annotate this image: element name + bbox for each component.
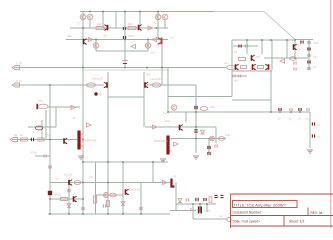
wire tr low y76 (232, 75, 247, 77)
transistor Q25 (68, 180, 72, 186)
inductor L1 (172, 179, 175, 187)
capacitor C7b (215, 144, 217, 147)
svg-text:n5: n5 (72, 116, 76, 120)
junction J6 (82, 27, 84, 29)
vertical x42 (41, 120, 43, 140)
junction J48 (195, 111, 197, 113)
junction J11 (124, 67, 126, 69)
svg-text:L3: L3 (313, 55, 317, 59)
transistor Q22 (63, 138, 67, 144)
capacitor C30 (308, 54, 310, 57)
junction J14 (49, 84, 51, 86)
transistor Q11 (145, 43, 151, 49)
vertical x144 (143, 72, 145, 127)
svg-text:1n: 1n (313, 65, 317, 69)
transistor Q28 (104, 193, 109, 198)
vertical x209 (208, 139, 210, 154)
svg-text:4k7: 4k7 (234, 79, 239, 83)
svg-text:Date: <not saved>: Date: <not saved> (233, 220, 261, 224)
junction J22 (270, 39, 272, 41)
svg-text:n_in: n_in (16, 79, 22, 83)
net arrow A4 (280, 59, 285, 63)
junction J21 (261, 39, 263, 41)
wire tr second y46 (233, 45, 258, 47)
svg-text:1k0: 1k0 (97, 22, 102, 26)
diode D9 (178, 199, 182, 203)
ground G4 (307, 150, 313, 153)
resistor R15 (21, 138, 28, 141)
svg-text:22k: 22k (45, 134, 50, 138)
svg-text:10R: 10R (225, 133, 231, 137)
junction J13 (161, 67, 163, 69)
vertical x103 stub (102, 12, 104, 29)
wire mid row y162 (83, 161, 168, 163)
net arrow D2 (152, 37, 157, 41)
resistor R16 (38, 138, 44, 141)
junction J4 (139, 11, 141, 13)
junction J12 (146, 67, 148, 69)
wire V+ rail left (80, 11, 148, 13)
junction J_a7 (156, 27, 158, 29)
capacitor C11 (49, 165, 51, 168)
svg-text:2sc5200: 2sc5200 (130, 188, 142, 192)
svg-text:fnn: fnn (163, 111, 168, 115)
wire input line (14, 84, 104, 86)
wire bias row y28 (70, 27, 168, 29)
svg-text:T9: T9 (256, 55, 260, 59)
resistor R20 (94, 196, 97, 203)
resistor R24 (239, 58, 246, 61)
junction J43 (206, 203, 208, 205)
vertical x96 upper (95, 40, 97, 52)
capacitor C17 (215, 195, 218, 197)
wire V+ rail right (214, 11, 264, 13)
wire feedback side (146, 84, 196, 86)
resistor R26 (258, 66, 264, 69)
junction J15 (49, 139, 51, 141)
junction J34 (107, 213, 109, 215)
junction J8 (124, 39, 126, 41)
transistor Q34 (293, 44, 297, 50)
vertical x125 upper (124, 12, 126, 63)
via dot (94, 92, 97, 95)
transistor Q9 glyph (158, 38, 163, 45)
svg-text:2R2: 2R2 (313, 41, 319, 45)
vertical x69 (68, 186, 70, 214)
resistor R9 (152, 83, 161, 87)
junction J24 (294, 39, 296, 41)
vertical x108 long (107, 72, 109, 214)
vertical x176 (175, 183, 177, 211)
resistor R27 (289, 57, 296, 61)
resistor R10 rail end (227, 65, 236, 69)
capacitor C34 (307, 108, 309, 111)
capacitor C29 (308, 48, 310, 51)
vertical x46 (45, 110, 47, 140)
capacitor C16 (204, 198, 206, 201)
wire zobel y58 (264, 57, 308, 59)
vertical tr x272 (271, 40, 273, 70)
wire cap feed y107 (48, 106, 80, 108)
vertical x295 (294, 40, 296, 58)
vertical x83 main bus (82, 12, 84, 215)
net arrow A5 (153, 125, 158, 129)
capacitor C14 (186, 198, 188, 201)
capacitor C31 (279, 108, 281, 111)
wire rc link y127 (28, 126, 56, 128)
capacitor C35 (312, 122, 314, 125)
capacitor C3 (195, 106, 197, 109)
resistor R13 (35, 126, 43, 130)
connector X1 (227, 217, 231, 221)
wire bottom rail left (48, 213, 170, 215)
resistor R8 (87, 83, 96, 87)
svg-text:470p: 470p (30, 151, 37, 155)
svg-text:o1: o1 (224, 61, 228, 65)
diode D7 (67, 204, 71, 208)
vertical x232 (231, 40, 233, 97)
svg-text:0R22: 0R22 (54, 193, 62, 197)
transistor Q9 wrap (158, 38, 163, 45)
capacitor C30b (308, 61, 310, 64)
junction J10 (82, 67, 84, 69)
port P3 (10, 134, 18, 142)
transistor Q5 (104, 25, 108, 31)
junction J27 (82, 182, 84, 184)
svg-text:n_fb: n_fb (16, 62, 22, 66)
vertical tr x262 (261, 40, 263, 54)
junction J20 (246, 39, 248, 41)
svg-text:10u: 10u (38, 99, 43, 103)
junction J28 (107, 182, 109, 184)
wire vas link2 (232, 99, 271, 101)
capacitor C24 (238, 75, 240, 78)
net arrow A2 (87, 123, 92, 127)
wire cascode row y39 (66, 39, 168, 41)
capacitor C38 (140, 207, 142, 210)
vertical x196 mid (195, 85, 197, 153)
svg-text:2k2: 2k2 (67, 34, 72, 38)
wire mid bottom row y195 (96, 194, 123, 196)
junction J18 (270, 111, 272, 113)
net arrow A6 (131, 44, 136, 48)
wire tr top y40 (232, 39, 295, 41)
svg-text:REV: 3a: REV: 3a (311, 211, 323, 215)
capacitor C1 (123, 36, 125, 39)
junction J23 (286, 39, 288, 41)
capacitor C6 (208, 152, 210, 155)
vertical x165 stub (164, 20, 166, 28)
svg-text:L1: L1 (173, 174, 177, 178)
vertical x186 stub (185, 112, 187, 122)
junction J37 (82, 161, 84, 163)
vertical x310 low (309, 112, 311, 148)
net arrow A7 (148, 26, 153, 30)
wire long mid rail (14, 67, 226, 69)
ground G1 (193, 156, 199, 159)
wire circle bottoms y51 (96, 50, 148, 52)
vertical x162 mid (161, 40, 163, 86)
resistor R18 dark square (48, 191, 52, 195)
junction J5 (157, 11, 159, 13)
capacitor C36 (312, 134, 314, 137)
junction J44 (195, 126, 197, 128)
junction J32 (68, 213, 70, 215)
svg-text:1u: 1u (317, 123, 321, 127)
junction J41 (192, 203, 194, 205)
svg-text:T8: T8 (89, 175, 93, 179)
capacitor C1b (123, 27, 125, 30)
wire out right y39 (295, 39, 313, 41)
vertical tr x247 (246, 40, 248, 54)
tee symbol T1 (122, 61, 128, 68)
wire input RC row (12, 139, 77, 141)
junction J2 (102, 11, 104, 13)
vertical x216 (215, 127, 217, 143)
capacitor C15 (196, 198, 198, 201)
svg-text:b1: b1 (104, 34, 108, 38)
transistor Q20 (179, 125, 183, 131)
vertical x168 (167, 68, 169, 113)
vertical x158 (157, 12, 159, 40)
wire small stub y156 (35, 155, 50, 157)
wire bottom rail right (170, 210, 196, 212)
transistor Q15 (144, 82, 148, 88)
wire spreader row y127 (145, 126, 216, 128)
svg-text:T3: T3 (77, 22, 81, 26)
svg-text:1n: 1n (289, 117, 293, 121)
svg-text:47p: 47p (210, 105, 215, 109)
capacitor C9 (31, 138, 33, 141)
svg-text:IRFP240: IRFP240 (85, 139, 97, 143)
svg-text:mpsa18: mpsa18 (92, 77, 103, 81)
net arrow A1 (71, 105, 76, 109)
capacitor C26 (294, 67, 296, 70)
wire out cluster row y204 (176, 203, 216, 205)
vertical x141 low (140, 183, 142, 215)
junction J45 (279, 111, 281, 113)
power transistor M2 (166, 136, 171, 155)
junction J47 (299, 111, 301, 113)
capacitor C37 (82, 207, 84, 210)
svg-text:100n: 100n (128, 34, 135, 38)
resistor R12b (218, 137, 224, 141)
wire tr bottom y71 (232, 70, 272, 72)
capacitor C30c (308, 67, 310, 70)
vertical x116 stub (115, 12, 117, 29)
wire emitter join (108, 96, 144, 98)
junction J26 (68, 182, 70, 184)
junction J36 (140, 213, 142, 215)
transistor Q32 (252, 64, 256, 70)
vertical x95 low (95, 162, 97, 214)
svg-text:1n: 1n (278, 117, 282, 121)
capacitor C25 (294, 61, 296, 64)
diode D8 (121, 202, 125, 206)
resistor R22 (107, 201, 110, 207)
vertical x271 (270, 70, 272, 112)
transistor Q33 (265, 64, 269, 70)
capacitor C8 (36, 104, 48, 110)
transistor Q10 (93, 43, 99, 49)
transistor Q21 (210, 136, 215, 141)
junction J3 (124, 11, 126, 13)
resistor R19 (61, 198, 68, 201)
wire driver row y182 (50, 182, 171, 184)
junction J39 (152, 161, 154, 163)
junction J42 (199, 203, 201, 205)
junction J7 (95, 39, 97, 41)
ground G3 (160, 159, 166, 162)
transistor Q31 (251, 55, 255, 61)
vertical x148 upper (147, 40, 149, 52)
transistor Q19 (171, 105, 177, 111)
resistor R5 (96, 27, 104, 30)
junction J9 (147, 39, 149, 41)
svg-text:fb: fb (99, 92, 102, 96)
title block frame (231, 194, 333, 228)
svg-text:bias: bias (165, 119, 171, 123)
resistor R17 (74, 181, 81, 185)
vertical x140 stub (139, 12, 141, 29)
vertical tr x287 (286, 40, 288, 58)
junction J16 (82, 139, 84, 141)
junction J35 (122, 213, 124, 215)
svg-text:1n: 1n (298, 117, 302, 121)
svg-text:o2: o2 (151, 51, 155, 55)
vertical x200 low (199, 204, 201, 212)
svg-text:1k0: 1k0 (128, 22, 133, 26)
resistor R25 (241, 66, 247, 69)
wire bottom out y219 (193, 218, 227, 220)
vertical x193 low (192, 204, 194, 219)
wire diagonal drop (264, 12, 295, 40)
net arrow D6 (174, 142, 179, 146)
junction J31 (49, 213, 51, 215)
svg-text:fb2: fb2 (146, 73, 151, 77)
wire vas link (168, 96, 232, 98)
capacitor C33 (299, 108, 301, 111)
wire row y199 (50, 198, 83, 200)
transistor Q1 (80, 14, 86, 20)
svg-text:1n: 1n (306, 117, 310, 121)
capacitor C27 (301, 41, 303, 44)
vertical x56 (55, 107, 57, 127)
svg-text:Document Number:: Document Number: (233, 211, 262, 215)
net arrow A3 (163, 180, 168, 184)
svg-text:TITLE: ICE Amplifier 200W?: TITLE: ICE Amplifier 200W? (234, 202, 287, 207)
capacitor C32 (290, 108, 292, 111)
svg-text:IRFP9240: IRFP9240 (154, 139, 168, 143)
junction J33 (82, 213, 84, 215)
capacitor C23 (233, 75, 235, 78)
svg-text:o2: o2 (170, 36, 174, 40)
junction J19 (195, 138, 197, 140)
capacitor C22 (245, 45, 247, 48)
transistor Q2 (87, 14, 93, 20)
resistor R21 (110, 193, 116, 197)
frame right border (330, 0, 332, 228)
svg-text:bd139: bd139 (64, 173, 73, 177)
junction J38 (122, 161, 124, 163)
transistor Q6 (138, 25, 142, 31)
net arrow D1 (89, 37, 94, 41)
junction J46 (290, 111, 292, 113)
wire V+ rail green segment (148, 11, 214, 13)
port P2 (12, 79, 22, 87)
capacitor C12 (68, 189, 70, 192)
transistor Q29 (125, 189, 129, 195)
wire lower long rail y112 (168, 111, 310, 113)
capacitor C20 electrolytic (198, 207, 202, 214)
transistor Q8 (83, 39, 87, 45)
diode D4 (201, 130, 205, 134)
transistor Q3 (155, 14, 161, 20)
capacitor C5 (208, 146, 210, 149)
junction J29 (82, 198, 84, 200)
vertical x50 long (49, 85, 51, 214)
capacitor C10 (44, 154, 46, 157)
capacitor C21 (239, 45, 241, 48)
vertical x309 chain (308, 40, 310, 70)
vertical x123 low (122, 162, 124, 214)
resistor R11 (200, 107, 208, 111)
junction J30 (49, 198, 51, 200)
transistor Q30 (235, 64, 239, 70)
svg-text:100u: 100u (204, 209, 211, 213)
capacitor C28 (308, 41, 310, 44)
svg-text:1u: 1u (317, 135, 321, 139)
vertical x90 stub (89, 20, 91, 28)
svg-text:1k: 1k (20, 133, 24, 137)
junction J25 (294, 57, 296, 59)
resistor R6 (128, 27, 136, 30)
svg-text:T7: T7 (56, 177, 60, 181)
power transistor M1 (77, 131, 82, 150)
capacitor C18 (221, 195, 224, 197)
junction J1 (89, 11, 91, 13)
svg-text:b2: b2 (234, 50, 238, 54)
wire faint second rail (84, 69, 168, 71)
capacitor C13 (103, 204, 105, 207)
resistor R23 (209, 197, 212, 203)
capacitor C19 (191, 208, 193, 211)
svg-text:Sheet: 1/1: Sheet: 1/1 (289, 220, 305, 224)
junction J40 (107, 161, 109, 163)
vertical x207 low (206, 204, 208, 212)
transistor Q4 (162, 14, 168, 20)
svg-text:T4: T4 (153, 22, 157, 26)
svg-text:mpsa18: mpsa18 (150, 77, 161, 81)
capacitor C4 (194, 130, 197, 132)
junction J17 (167, 111, 169, 113)
transistor Q14 (104, 82, 108, 88)
port P1 (12, 62, 22, 70)
vertical x153 (152, 162, 154, 183)
ground G2 (78, 156, 84, 159)
transistor Q27 (73, 196, 77, 202)
wire diode row y138 (171, 138, 226, 140)
